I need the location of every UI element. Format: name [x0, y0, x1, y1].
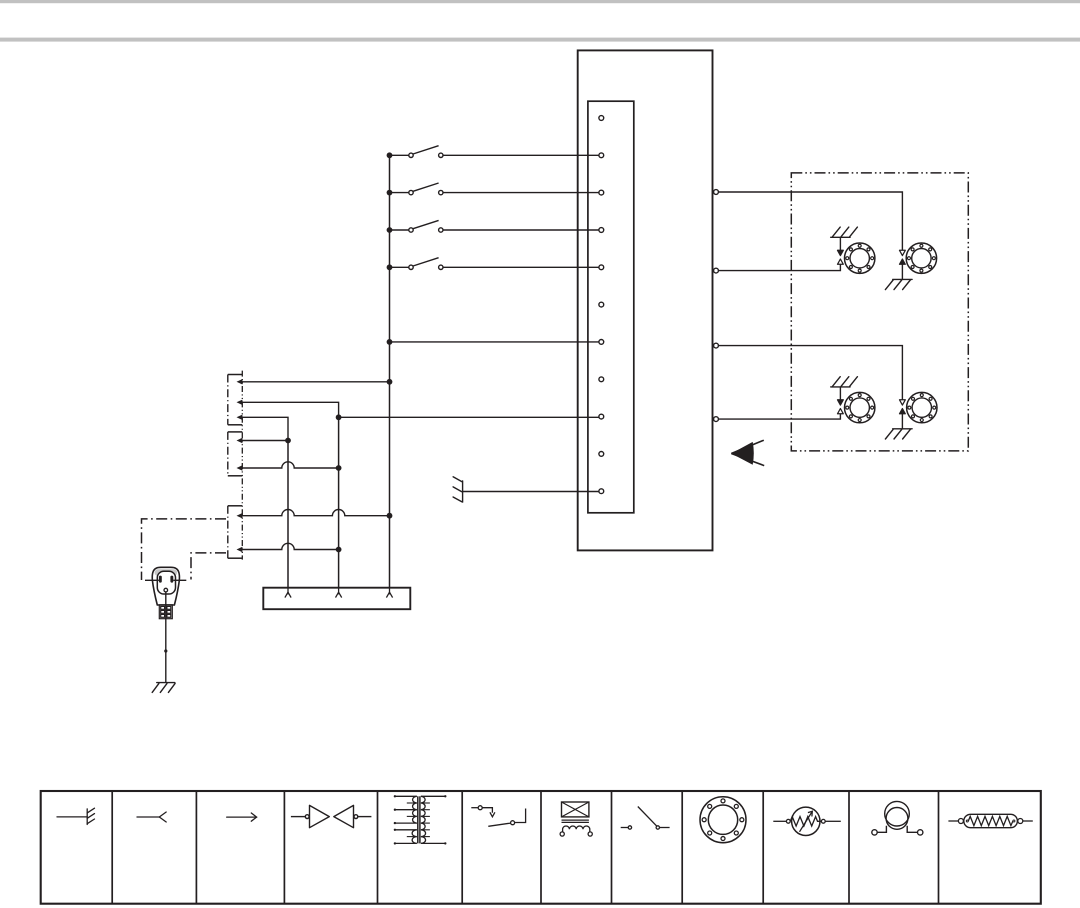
plug pin block	[159, 605, 172, 619]
wire bus to pin 7	[390, 341, 599, 343]
ground below motor M4	[885, 429, 912, 439]
bus bar terminal right	[386, 588, 392, 598]
wire row3	[240, 417, 288, 440]
wire main bus vertical	[389, 155, 391, 592]
switch SW1	[392, 146, 443, 158]
wire row5 with hop	[240, 462, 339, 468]
switch SW3	[392, 220, 443, 232]
legend motor ring symbol	[700, 797, 746, 843]
wire SW1 to pin 2	[443, 154, 599, 156]
terminal arrow row7	[237, 547, 243, 552]
second gray divider bar	[0, 38, 1080, 42]
ECU connector inner outline	[588, 101, 634, 513]
terminal arrow row6	[237, 513, 243, 518]
junction dot SW1	[387, 152, 393, 158]
ECU main unit outline U1	[578, 50, 713, 550]
pin 1	[599, 116, 604, 121]
wire pin R2 to motor M1	[718, 264, 840, 270]
terminal pair motor M1	[838, 250, 844, 264]
terminal pair motor M4	[900, 400, 906, 414]
legend table frame	[41, 791, 1041, 904]
pin 4	[599, 228, 604, 233]
junction dot row1 bus	[387, 379, 393, 385]
legend ground symbol	[57, 808, 95, 824]
legend horn symbol	[872, 801, 923, 835]
wire pin R3 to motor M4	[718, 346, 902, 400]
wire vertical x338.6 to busbar	[338, 417, 340, 592]
terminal arrow row1	[237, 379, 243, 384]
power plug P1 body	[152, 567, 179, 605]
wire row2	[240, 402, 339, 417]
plug cross line left	[145, 579, 159, 581]
terminal pair motor M2	[900, 250, 906, 264]
wire pin R1 to motor M2	[718, 192, 902, 250]
harness boundary dash-dot vertical	[241, 371, 243, 560]
ground above motor M3	[831, 377, 858, 387]
terminal arrow row5	[237, 465, 243, 470]
junction dot row5	[336, 465, 342, 471]
right pin R3	[714, 343, 719, 348]
legend heater element symbol	[948, 814, 1032, 827]
harness dash-dot to plug lower	[191, 553, 226, 580]
ground below motor M2	[885, 279, 912, 289]
pin 9	[599, 414, 604, 419]
view direction arrow	[731, 440, 764, 465]
ground plug earth	[152, 683, 175, 693]
motor M4	[907, 392, 937, 422]
harness boundary box right (dash-dot-dot)	[791, 173, 968, 451]
legend connector pair symbol	[291, 805, 372, 827]
terminal pair motor M3	[838, 400, 844, 414]
connector block CN-A outline	[228, 375, 243, 425]
ground above motor M1	[831, 227, 858, 237]
right pin R4	[714, 417, 719, 422]
plug cross line right	[173, 579, 186, 581]
legend open switch symbol	[621, 807, 670, 830]
top gray header bar	[0, 0, 1080, 3]
wire row3 to pin 9	[339, 416, 599, 418]
junction dot row3 row4	[285, 438, 291, 444]
junction dot SW3	[387, 227, 393, 233]
terminal arrow row3	[237, 415, 243, 420]
wire ground to pin 11	[463, 491, 599, 493]
wire row7 with hop	[240, 543, 339, 549]
pin 2	[599, 153, 604, 158]
wire ground to M1 terminal	[839, 237, 841, 250]
pin 8	[599, 377, 604, 382]
switch SW4	[392, 258, 443, 270]
switch SW2	[392, 183, 443, 195]
junction dot row7	[336, 547, 342, 553]
junction dot bus pin7	[387, 339, 393, 345]
wire SW3 to pin 4	[443, 229, 599, 231]
wire ground to M3 terminal	[839, 387, 841, 400]
junction dot SW2	[387, 190, 393, 196]
plug prong right	[170, 576, 173, 583]
pin 3	[599, 190, 604, 195]
wire pin R4 to motor M3	[718, 414, 840, 419]
junction dot row6 bus	[387, 513, 393, 519]
plug center hole	[164, 588, 168, 592]
right pin R2	[714, 268, 719, 273]
wire row6 with hops	[240, 509, 390, 515]
wire vertical x288 to busbar	[287, 441, 289, 593]
plug prong left	[159, 576, 162, 583]
legend solenoid symbol	[560, 802, 592, 836]
bus bar terminal middle	[336, 588, 342, 598]
ground bus bar	[263, 588, 410, 610]
connector block CN-B outline	[228, 432, 243, 476]
legend thermistor symbol	[773, 807, 841, 835]
junction dot SW4	[387, 264, 393, 270]
wire M2 terminal to ground	[901, 264, 903, 279]
pin 11	[599, 489, 604, 494]
harness dash-dot to plug upper	[142, 519, 227, 580]
wire plug to ground	[165, 592, 167, 683]
wire M4 terminal to ground	[901, 414, 903, 429]
pin 10	[599, 452, 604, 457]
right pin R1	[714, 190, 719, 195]
legend momentary switch symbol	[471, 806, 525, 827]
wire SW4 to pin 5	[443, 266, 599, 268]
bus bar terminal left	[285, 588, 291, 598]
junction dot row2 row3	[336, 414, 342, 420]
legend female terminal symbol	[137, 812, 166, 822]
wire row1 to bus	[240, 381, 390, 383]
pin 6	[599, 302, 604, 307]
legend male terminal symbol	[227, 813, 257, 821]
terminal arrow row2	[237, 400, 243, 405]
motor M1	[845, 243, 875, 273]
wire SW2 to pin 3	[443, 192, 599, 194]
connector block CN-C outline	[228, 506, 243, 558]
splice dot on plug ground wire	[164, 649, 167, 652]
pin 5	[599, 265, 604, 270]
motor M2	[906, 243, 936, 273]
legend transformer symbol	[394, 795, 447, 845]
terminal arrow row4	[237, 438, 243, 443]
ground at pin 11	[453, 477, 463, 502]
wire row4	[240, 440, 288, 442]
pin 7	[599, 340, 604, 345]
motor M3	[845, 392, 875, 422]
